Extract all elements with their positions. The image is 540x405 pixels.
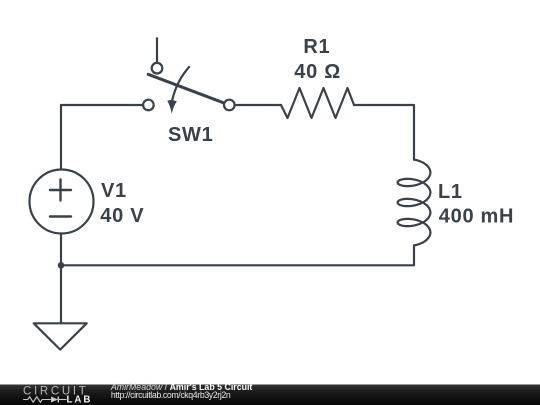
switch SW1 terminal left	[143, 100, 154, 111]
wire SW1 top stub	[156, 38, 158, 64]
wire V1 bottom to junction	[60, 233, 62, 265]
wire top-left horizontal from V1 to SW1	[61, 104, 143, 106]
switch SW1 arrow arc	[172, 66, 190, 100]
switch SW1 blade	[148, 74, 223, 103]
resistor R1	[281, 88, 354, 118]
svg-text:40 V: 40 V	[100, 205, 144, 227]
wire bottom horizontal L1 to junction	[61, 245, 414, 265]
inductor L1	[398, 160, 431, 246]
svg-text:L1: L1	[438, 181, 463, 203]
svg-text:40 Ω: 40 Ω	[294, 61, 341, 83]
voltage source V1	[30, 170, 94, 234]
switch SW1 arrowhead	[167, 100, 177, 114]
logo diode	[51, 397, 58, 403]
switch SW1 terminal right	[224, 100, 235, 111]
svg-text:LAB: LAB	[67, 394, 93, 405]
svg-text:400 mH: 400 mH	[439, 205, 514, 227]
switch SW1 terminal top	[152, 63, 163, 74]
junction node	[58, 262, 65, 269]
svg-text:V1: V1	[101, 180, 127, 202]
wire R1 to top-right corner down to L1	[354, 105, 414, 160]
wire left vertical V1 top	[60, 105, 62, 170]
svg-text:SW1: SW1	[168, 124, 213, 146]
wire SW1 to R1	[235, 104, 281, 106]
ground	[34, 323, 87, 349]
logo squiggle resistor	[23, 397, 51, 402]
svg-text:http://circuitlab.com/ckq4rb3y: http://circuitlab.com/ckq4rb3y2rj2n	[111, 390, 231, 400]
wire ground stem	[60, 265, 62, 323]
svg-text:R1: R1	[303, 36, 330, 58]
